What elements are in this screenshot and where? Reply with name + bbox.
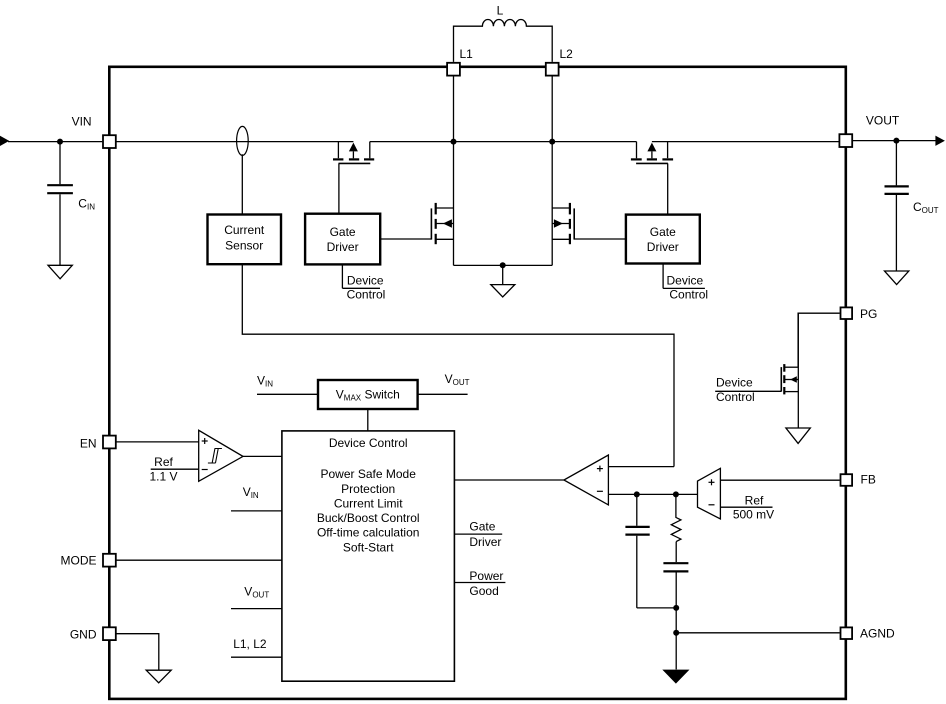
wire sensor output <box>242 264 674 466</box>
svg-text:Device: Device <box>347 274 384 288</box>
vmax switch box <box>318 380 418 409</box>
wire sensor lead <box>241 154 243 214</box>
wire Q5 gate lead <box>715 390 781 392</box>
svg-text:Device: Device <box>716 376 753 390</box>
wire PG to Q5 <box>798 313 840 367</box>
output arrow <box>935 136 945 146</box>
wire VIN rail to Q1 <box>116 141 353 143</box>
resistor R1 compensation <box>671 494 681 541</box>
svg-text:Driver: Driver <box>469 535 501 549</box>
svg-text:AGND: AGND <box>860 627 895 641</box>
ground PG <box>786 428 810 443</box>
node compensation right <box>673 491 679 497</box>
svg-text:Buck/Boost Control: Buck/Boost Control <box>317 511 420 525</box>
wire Ref 500mV input <box>720 506 772 508</box>
label Ref 1.1 V <box>149 455 177 483</box>
wire CIN lead bottom <box>59 194 61 265</box>
wire error amp output to device control <box>454 479 564 481</box>
pin AGND <box>841 627 896 641</box>
ground analog <box>664 670 689 683</box>
wire vmax switch to VOUT <box>418 393 468 395</box>
wire COUT lead top <box>895 141 897 186</box>
transistor Q5 power good NMOS <box>781 313 798 428</box>
pin GND <box>70 627 116 641</box>
pin FB <box>841 473 876 487</box>
wire U4 device control lead <box>663 264 705 289</box>
capacitor C2 compensation <box>663 542 688 608</box>
pin MODE <box>61 554 116 568</box>
current sensor box <box>208 215 282 265</box>
wire VIN rail Q1 to Q4 <box>370 141 637 143</box>
node compensation bottom <box>673 605 679 611</box>
svg-text:Control: Control <box>669 288 708 302</box>
svg-text:Current Limit: Current Limit <box>334 497 403 511</box>
svg-text:GND: GND <box>70 628 97 642</box>
label VIN input <box>231 485 282 511</box>
pin VOUT <box>839 114 900 148</box>
svg-text:Device Control: Device Control <box>329 436 408 450</box>
wire Q1 gate lead <box>338 163 340 213</box>
wire vmax switch to device control <box>367 409 369 431</box>
svg-text:Device: Device <box>667 274 704 288</box>
label U4 device control <box>667 274 709 302</box>
svg-text:1.1 V: 1.1 V <box>149 469 177 483</box>
label L1 L2 input <box>231 637 282 657</box>
ground CIN <box>48 265 72 279</box>
label gate driver output <box>454 519 502 549</box>
transistor Q2 low-side left NMOS <box>431 76 453 265</box>
capacitor COUT <box>885 186 939 215</box>
input arrow <box>0 136 9 146</box>
wire MODE <box>116 559 282 561</box>
op-amp U3 error amplifier <box>564 455 609 505</box>
svg-text:Current: Current <box>224 223 265 237</box>
ground COUT <box>885 271 909 285</box>
wire C1 bottom to node <box>637 607 676 609</box>
wire FB to U5 plus <box>720 479 839 481</box>
inductor L <box>454 4 553 62</box>
svg-text:Protection: Protection <box>341 482 395 496</box>
pin L1 <box>447 47 473 76</box>
gate driver U4 <box>626 215 700 264</box>
wire U3 minus input <box>608 493 697 495</box>
transistor Q1 high-side buck PMOS <box>333 142 374 164</box>
label VOUT input <box>231 584 282 608</box>
node CIN junction <box>57 139 63 145</box>
pin L2 <box>546 47 573 76</box>
transistor Q4 high-side boost PMOS <box>631 142 673 164</box>
svg-text:PG: PG <box>860 307 877 321</box>
pin VIN <box>72 115 116 149</box>
label power good output <box>454 569 505 598</box>
device control block <box>282 431 455 681</box>
node power ground junction <box>500 262 506 284</box>
svg-text:L: L <box>497 4 504 18</box>
pin PG <box>841 307 878 321</box>
svg-text:VIN: VIN <box>72 115 92 129</box>
wire U2 output <box>243 455 282 457</box>
svg-text:Gate: Gate <box>330 225 356 239</box>
svg-text:Power Safe Mode: Power Safe Mode <box>321 467 417 481</box>
gate driver U1 <box>305 214 380 265</box>
svg-text:Driver: Driver <box>647 240 679 254</box>
svg-text:Control: Control <box>716 390 755 404</box>
wire node to AGND node <box>675 608 677 633</box>
svg-text:Soft-Start: Soft-Start <box>343 540 394 554</box>
wire AGND <box>676 632 840 634</box>
wire Q3 source to ground node <box>503 264 553 266</box>
wire to analog ground <box>675 633 677 670</box>
op-amp U2 enable comparator <box>199 430 243 481</box>
node AGND junction <box>673 630 679 636</box>
svg-text:Ref: Ref <box>745 493 764 507</box>
node L2 junction <box>549 139 555 145</box>
svg-text:MODE: MODE <box>61 554 97 568</box>
svg-text:Sensor: Sensor <box>225 239 263 253</box>
node compensation left <box>634 491 640 497</box>
wire GND <box>116 634 158 671</box>
label Q5 device control <box>716 376 755 404</box>
svg-text:L2: L2 <box>560 47 574 61</box>
wire U1 device control lead <box>342 264 380 288</box>
wire VOUT rail from Q4 <box>652 141 840 143</box>
label Ref 500 mV <box>733 493 774 521</box>
svg-text:VOUT: VOUT <box>866 114 900 128</box>
svg-text:Gate: Gate <box>469 519 495 533</box>
svg-text:Off-time calculation: Off-time calculation <box>317 526 420 540</box>
pin EN <box>80 436 116 451</box>
ground GND pin <box>146 670 171 683</box>
svg-text:EN: EN <box>80 437 97 451</box>
capacitor C1 compensation <box>625 494 649 608</box>
svg-text:Good: Good <box>469 584 498 598</box>
label VOUT vmax <box>445 372 470 387</box>
svg-text:Driver: Driver <box>327 240 359 254</box>
label U1 device control <box>347 274 386 302</box>
svg-text:FB: FB <box>861 473 876 487</box>
node L1 junction <box>451 139 457 145</box>
node COUT junction <box>893 138 899 144</box>
svg-text:Power: Power <box>469 569 503 583</box>
wire Q2 source to ground node <box>454 264 503 266</box>
current sense loop <box>237 126 249 155</box>
svg-text:500 mV: 500 mV <box>733 507 774 521</box>
wire Q4 gate lead <box>667 163 669 214</box>
device boundary border <box>109 67 846 699</box>
wire COUT lead bottom <box>895 195 897 271</box>
op-amp U5 feedback comparator <box>698 468 721 519</box>
wire VIN to vmax switch <box>257 393 318 395</box>
svg-text:Ref: Ref <box>154 455 173 469</box>
wire VIN input <box>8 141 102 143</box>
svg-text:L1, L2: L1, L2 <box>233 637 267 651</box>
svg-text:Control: Control <box>347 288 386 302</box>
label VIN vmax <box>257 374 273 389</box>
wire CIN lead top <box>59 142 61 185</box>
wire EN to comparator <box>116 441 198 443</box>
ground power stage <box>491 285 515 297</box>
svg-text:L1: L1 <box>460 47 474 61</box>
svg-text:Gate: Gate <box>650 225 676 239</box>
wire U3 plus input <box>608 466 674 468</box>
wire VOUT output <box>853 140 937 142</box>
transistor Q3 low-side right NMOS <box>552 76 574 265</box>
capacitor CIN <box>47 185 95 211</box>
wire Ref 1.1V input <box>151 468 199 470</box>
wire U4 output to Q3 gate <box>574 238 626 240</box>
wire U1 output to Q2 gate <box>380 238 431 240</box>
